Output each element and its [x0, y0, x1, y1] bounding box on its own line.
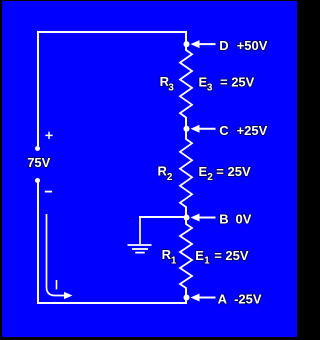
resistor R2: [180, 139, 192, 207]
node A: [184, 294, 216, 302]
label R3: [160, 74, 175, 93]
label B 0V: [219, 211, 252, 226]
wire: ground to node B: [139, 216, 186, 218]
label R2: [158, 164, 173, 183]
svg-text:D: D: [219, 38, 228, 53]
wire: stub bottom to node A: [185, 297, 187, 304]
wire: R2 to node B: [185, 207, 187, 219]
svg-text:0V: 0V: [236, 211, 252, 226]
svg-text:+25V: +25V: [237, 123, 268, 138]
battery 75V negative terminal dot: [35, 178, 40, 183]
node D: [184, 40, 216, 48]
label R1: [162, 247, 177, 266]
node B: [184, 214, 216, 222]
svg-text:3: 3: [207, 82, 213, 93]
plus sign: [45, 132, 52, 139]
label E1 = 25V: [195, 248, 249, 267]
label E2 = 25V: [199, 164, 251, 183]
svg-text:= 25V: = 25V: [214, 248, 249, 263]
wire: bottom horizontal: [37, 302, 186, 304]
current arrow I curve: [47, 214, 73, 299]
svg-text:-25V: -25V: [234, 291, 262, 306]
wire: node D to R3: [185, 44, 187, 51]
svg-text:2: 2: [167, 172, 173, 183]
wire: R3 to node C: [185, 117, 187, 129]
label D +50V: [219, 38, 267, 53]
node C: [184, 125, 216, 133]
svg-text:E: E: [195, 248, 204, 263]
ground symbol: [128, 217, 152, 253]
svg-text:= 25V: = 25V: [220, 74, 255, 89]
svg-text:A: A: [218, 291, 228, 306]
wire: ladder top stub: [185, 31, 187, 44]
wire: left vertical upper (source + lead): [37, 31, 39, 146]
resistor R3: [180, 50, 192, 118]
svg-text:1: 1: [204, 256, 210, 267]
svg-text:75V: 75V: [27, 155, 50, 170]
wire: node B to R1: [185, 218, 187, 225]
svg-text:E: E: [199, 164, 208, 179]
label E3 = 25V: [199, 74, 255, 93]
svg-text:3: 3: [168, 82, 174, 93]
svg-text:B: B: [219, 211, 228, 226]
svg-text:1: 1: [171, 255, 177, 266]
label I: [56, 280, 58, 289]
wire: node C to R2: [185, 129, 187, 140]
wire: top horizontal from source to ladder: [37, 31, 187, 33]
battery 75V positive terminal dot: [35, 146, 40, 151]
svg-text:+50V: +50V: [237, 38, 268, 53]
svg-text:2: 2: [207, 172, 213, 183]
wire: left vertical lower: [37, 181, 39, 304]
label A -25V: [218, 291, 262, 306]
label C +25V: [219, 123, 267, 138]
minus sign: [45, 191, 52, 193]
resistor R1: [180, 224, 192, 288]
svg-text:C: C: [219, 123, 229, 138]
wire: R1 to node A: [185, 288, 187, 299]
svg-text:= 25V: = 25V: [216, 164, 251, 179]
